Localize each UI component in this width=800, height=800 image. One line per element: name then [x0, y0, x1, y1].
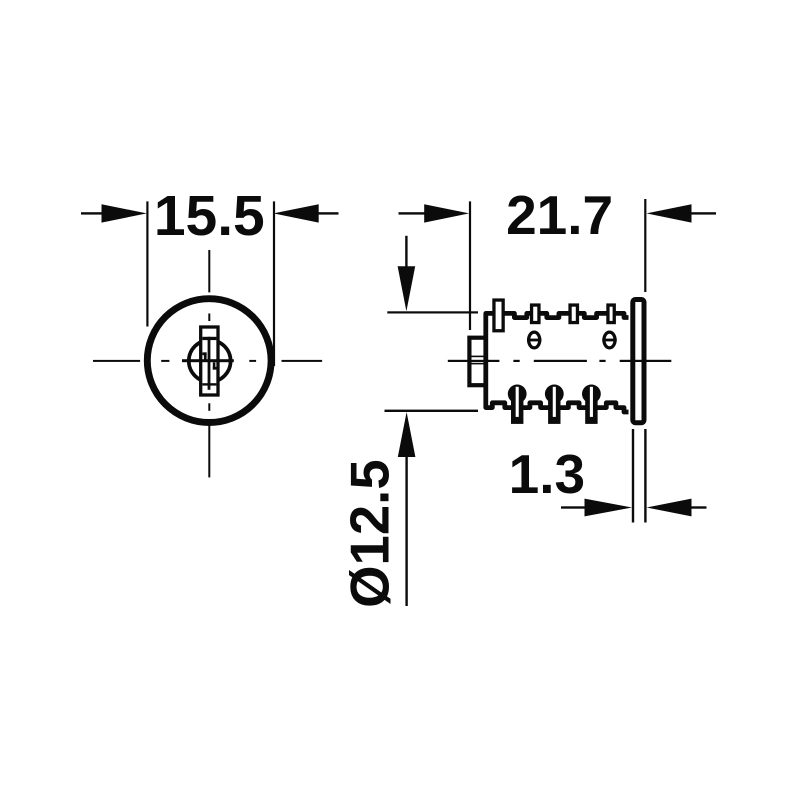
outer circle of cylinder face	[147, 299, 271, 423]
dimension 1.3 right arrow tail	[691, 506, 707, 508]
horizontal centerline short dash right	[249, 360, 256, 362]
dimension 21.7 right arrow tail	[691, 212, 717, 214]
dimension 1.3 left extension line	[632, 429, 634, 523]
screw head 2 (theta)	[604, 332, 615, 348]
bottom pin 2 slot	[553, 387, 556, 417]
side centerline short dash 1	[513, 360, 519, 362]
horizontal centerline long left segment	[93, 360, 140, 362]
dimension 15.5 left arrowhead	[102, 204, 147, 222]
dimension 1.3 left arrowhead	[585, 499, 633, 517]
bottom pin 3 head	[582, 385, 601, 404]
bottom pin 2 stem	[548, 394, 560, 424]
dimension 15.5 right extension line	[273, 201, 275, 366]
dimension 1.3 right arrowhead	[647, 499, 692, 517]
screw head 1 slot	[527, 339, 541, 342]
bottom pin 2 head	[545, 385, 564, 404]
diameter 12.5 top extension line	[387, 311, 478, 313]
dimension 15.5 right arrowhead	[273, 204, 318, 222]
svg-text:15.5: 15.5	[154, 184, 265, 248]
dimension 15.5 right arrow tail	[318, 212, 339, 214]
dimension 15.5 left arrow tail	[81, 212, 102, 214]
top pin 4	[608, 305, 614, 323]
dimension 21.7 left extension line	[469, 201, 471, 330]
shaft inner line upper	[472, 356, 484, 358]
keyhole left notch vertical	[204, 352, 207, 361]
bottom pin 3 stem	[585, 394, 597, 424]
top pin 3	[570, 305, 577, 323]
svg-text:Ø12.5: Ø12.5	[339, 459, 400, 607]
diameter 12.5 bottom extension line	[385, 410, 479, 412]
shaft inner line lower	[472, 363, 484, 365]
diameter 12.5 up arrowhead	[398, 412, 416, 457]
keyhole left notch horizontal	[202, 352, 206, 355]
right flange disc	[633, 300, 644, 423]
bottom pin 1 slot	[516, 387, 519, 417]
vertical centerline short dash below keyhole	[208, 403, 210, 411]
horizontal centerline long right segment	[282, 360, 323, 362]
svg-text:21.7: 21.7	[506, 184, 613, 246]
bottom pin 1 head	[508, 385, 527, 404]
side centerline short dash 2	[599, 360, 605, 362]
keyhole right notch horizontal	[213, 367, 217, 370]
side centerline long dash through shaft	[448, 360, 500, 362]
keyhole lower divider bar	[202, 383, 216, 385]
diameter 12.5 down arrowhead	[398, 266, 416, 311]
svg-text:1.3: 1.3	[509, 443, 585, 505]
screw head 1 (theta)	[529, 332, 540, 348]
diameter 12.5 down arrow line	[405, 236, 407, 267]
vertical centerline long top segment	[208, 250, 210, 292]
screw head 2 slot	[602, 339, 616, 342]
horizontal centerline thick center dash over keyhole	[182, 359, 234, 362]
cylinder body outline (castellated)	[486, 313, 629, 412]
dimension 21.7 left arrowhead	[424, 204, 469, 222]
top pin 1	[494, 300, 503, 331]
horizontal centerline short dash left	[161, 360, 169, 362]
keyhole central bar	[208, 337, 211, 390]
diameter 12.5 up arrow line	[405, 457, 407, 606]
bottom pin 3 slot	[590, 387, 593, 417]
dimension 21.7 left arrow tail	[399, 212, 425, 214]
dimension 15.5 left extension line	[146, 201, 148, 326]
keyhole right notch vertical	[213, 362, 216, 369]
side centerline long dash through flange	[620, 360, 672, 362]
bottom pin 1 stem	[511, 394, 523, 424]
side centerline long middle dash	[534, 360, 587, 362]
dimension 21.7 right arrowhead	[647, 204, 692, 222]
dimension 21.7 right extension line	[644, 199, 646, 292]
dimension 1.3 right extension line	[644, 429, 646, 523]
plug circle	[189, 340, 231, 382]
keyhole outer rectangle	[201, 327, 218, 395]
top pin 2	[532, 305, 539, 323]
vertical centerline long bottom segment	[208, 426, 210, 478]
vertical centerline short dash above keyhole	[208, 314, 210, 322]
keyhole upper divider bar	[202, 337, 216, 340]
dimension 1.3 left arrow tail	[561, 506, 585, 508]
left shaft protrusion	[469, 338, 485, 386]
